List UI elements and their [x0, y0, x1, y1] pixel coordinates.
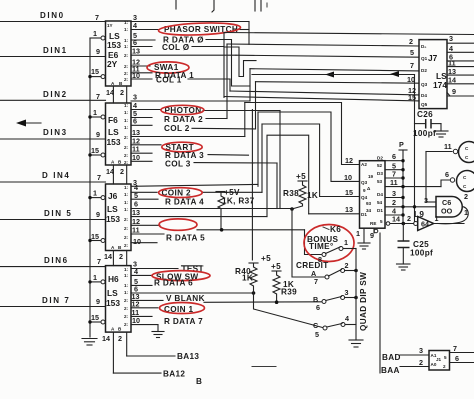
svg-text:10: 10 [132, 316, 140, 325]
annotation oval SLOW SW [152, 271, 210, 281]
wire H6 pin6 [131, 285, 252, 294]
svg-text:1:: 1: [124, 207, 129, 212]
svg-text:10: 10 [132, 71, 140, 80]
svg-text:BA12: BA12 [163, 370, 185, 379]
svg-text:2:: 2: [124, 298, 129, 303]
svg-text:1:: 1: [124, 27, 129, 32]
svg-text:COL 3: COL 3 [165, 160, 191, 169]
svg-text:7: 7 [97, 257, 101, 266]
wire 9334 pin14 to inverter [386, 214, 414, 225]
svg-text:9: 9 [363, 188, 366, 193]
wire BAD to J1 [400, 346, 429, 355]
svg-text:2: 2 [120, 167, 124, 176]
svg-text:2:: 2: [124, 306, 129, 311]
svg-text:2:: 2: [124, 64, 129, 69]
wire 9334 pin15 feed [262, 124, 320, 197]
svg-text:DIN1: DIN1 [43, 46, 68, 55]
wire feedback loop from C6 out [438, 207, 468, 224]
svg-text:DIN2: DIN2 [43, 90, 68, 99]
top edge wire stub 4 [260, 0, 262, 11]
annotation oval START [162, 142, 202, 152]
svg-text:11: 11 [444, 142, 452, 151]
svg-text:11: 11 [390, 178, 398, 187]
wire R DATA2 riser [226, 44, 228, 119]
wire J6 pin11 R DATA 5 [131, 226, 205, 243]
svg-text:BAD: BAD [382, 353, 401, 362]
wire BA13 [127, 352, 200, 361]
NAND gate C6 [424, 192, 468, 217]
svg-text:1: 1 [93, 189, 97, 198]
svg-text:Q3: Q3 [361, 180, 368, 185]
svg-text:4: 4 [345, 314, 349, 323]
svg-text:7: 7 [410, 61, 414, 70]
svg-text:TIME°: TIME° [309, 242, 334, 251]
wire J6 pin6 [131, 200, 292, 209]
wire QUAD DIP SW bus [355, 249, 357, 341]
svg-text:R DATA 2: R DATA 2 [164, 115, 203, 124]
wire COL2 riser to J7 pin10 [255, 82, 257, 129]
wire E6 pin12 SWA1 [131, 58, 179, 73]
svg-text:D2: D2 [377, 156, 383, 161]
wire J7 pin15 feed [224, 97, 419, 101]
wire E6 pin6 COL 0 [131, 38, 224, 52]
svg-text:1:: 1: [124, 192, 129, 197]
svg-text:9: 9 [370, 231, 374, 240]
svg-text:9: 9 [96, 130, 100, 139]
wire F6 pin15 strobe [88, 146, 105, 157]
wire COL1 riser to J7 pin12 [229, 79, 231, 91]
svg-text:14: 14 [392, 215, 400, 224]
wire bonus switch drop [305, 230, 322, 255]
svg-text:1:: 1: [124, 103, 129, 108]
svg-text:Q4: Q4 [361, 195, 368, 200]
wire DIN1 [0, 46, 106, 57]
wire DIN6 [0, 256, 106, 267]
svg-text:2:: 2: [124, 160, 129, 165]
wire to connector circle 6 [441, 180, 450, 187]
ground H6 pin10 [152, 332, 164, 338]
svg-text:A0: A0 [431, 362, 437, 367]
svg-text:7: 7 [97, 173, 101, 182]
wire J7 pin5 feed [236, 55, 419, 57]
svg-text:11: 11 [132, 226, 140, 235]
svg-text:34: 34 [366, 208, 372, 213]
wire vertical drop x280 [279, 111, 281, 209]
annotation oval SWA1 [147, 62, 189, 73]
wire 9334 pin3 [385, 189, 405, 199]
svg-text:C26: C26 [417, 110, 433, 119]
wire E6 pin4 PHASOR SWITCH [131, 21, 249, 34]
svg-text:100pf: 100pf [413, 129, 436, 138]
P pull-up column [399, 140, 407, 224]
connector circle lower [450, 171, 474, 192]
wire long vertical to BAA [379, 233, 381, 373]
svg-text:C: C [313, 321, 318, 330]
svg-text:1K, R37: 1K, R37 [222, 197, 255, 206]
svg-text:R39: R39 [281, 288, 297, 297]
svg-text:5: 5 [444, 355, 447, 360]
svg-text:7: 7 [96, 92, 100, 101]
svg-text:D2: D2 [421, 68, 427, 73]
switch 2 credit [311, 261, 358, 286]
svg-text:BA13: BA13 [177, 352, 199, 361]
svg-text:4: 4 [134, 267, 138, 276]
svg-text:6: 6 [392, 152, 396, 161]
svg-text:D IN4: D IN4 [42, 171, 70, 180]
wire J7 pin4 out [447, 44, 474, 53]
wire COL3 drop [276, 163, 278, 209]
switch 3 [313, 288, 358, 312]
wire J6 pin5 R DATA 4 [131, 191, 204, 206]
svg-text:2:: 2: [124, 153, 129, 158]
wire J6 pin15 strobe [88, 232, 105, 243]
svg-text:6: 6 [445, 170, 449, 179]
wire H6 pin5 R DATA 6 [131, 277, 193, 288]
svg-text:1: 1 [344, 238, 348, 247]
wire 9334 pin12 feed [245, 103, 360, 165]
svg-text:2:: 2: [124, 217, 129, 222]
svg-text:19: 19 [368, 174, 374, 179]
svg-text:D4: D4 [377, 192, 383, 197]
wire BAA to J1 [400, 358, 429, 367]
wire E6 pin3 [131, 13, 249, 22]
svg-text:LS: LS [107, 204, 118, 214]
svg-text:7: 7 [314, 277, 318, 286]
wire H6 pin12 COIN 1 [131, 300, 193, 314]
annotation oval COIN 1 [160, 303, 205, 314]
9334 pin9 stub [370, 228, 378, 240]
svg-text:1: 1 [356, 229, 360, 238]
svg-text:LS: LS [108, 127, 119, 137]
svg-text:R38: R38 [283, 189, 299, 198]
wire J7 pin9 clock [447, 87, 474, 96]
svg-text:1: 1 [464, 208, 468, 217]
svg-text:R DATA 6: R DATA 6 [154, 279, 193, 288]
svg-text:J7: J7 [428, 53, 438, 63]
annotation oval PHOTON [161, 105, 204, 114]
svg-text:1: 1 [93, 29, 97, 38]
svg-text:2Y: 2Y [107, 59, 118, 69]
resistor R37 [216, 188, 255, 232]
svg-text:+5: +5 [296, 172, 306, 181]
wire F6 pin13 riser to 9334 feed [244, 103, 246, 137]
switch 1 bonus [318, 238, 356, 264]
svg-text:5: 5 [315, 330, 319, 339]
wire J7 pin7 feed [250, 69, 419, 71]
svg-text:J1: J1 [436, 357, 442, 362]
svg-text:J6: J6 [108, 191, 118, 201]
wire H6 pin3 TEST [131, 260, 204, 274]
svg-text:1K: 1K [242, 274, 253, 283]
svg-text:H6: H6 [108, 274, 119, 284]
svg-text:1:: 1: [124, 200, 129, 205]
svg-text:4: 4 [133, 21, 137, 30]
strobe enable bus (left vertical) [89, 38, 91, 337]
J6 select pin stubs A/B [104, 251, 127, 266]
wire COIN2 riser [261, 124, 263, 192]
svg-text:7: 7 [453, 344, 457, 353]
wire J7 pin3 out [447, 34, 474, 43]
wire F6 pin1 strobe [88, 108, 105, 119]
wire J6 pin12 [131, 217, 305, 230]
wire DIN5 [0, 209, 106, 220]
svg-text:13: 13 [132, 208, 140, 217]
node bend pin3 to J7 pin2 [248, 22, 250, 45]
svg-text:DIN6: DIN6 [44, 256, 69, 265]
wire PHOTON drop to switch bus [251, 110, 253, 261]
wire J6 pin3 [131, 178, 258, 187]
svg-text:R DATA 3: R DATA 3 [165, 151, 204, 160]
svg-text:3: 3 [419, 346, 423, 355]
annotation oval (empty) [159, 219, 197, 230]
svg-text:R DATA 4: R DATA 4 [165, 197, 204, 206]
wire J6 pin10 [131, 237, 157, 246]
wire BA12 [113, 370, 185, 379]
wire DIN7 [0, 296, 106, 307]
svg-text:1:: 1: [124, 125, 129, 130]
wire J1 out 7 [450, 344, 474, 353]
svg-text:2: 2 [345, 261, 349, 270]
wire DIN3 [0, 128, 106, 139]
multiplexer E6 (LS153) [106, 20, 132, 86]
svg-text:OO: OO [441, 207, 453, 216]
svg-text:15: 15 [91, 232, 99, 241]
wire J7 pin13 out [447, 67, 474, 76]
wire J6 pin4 COIN 2 [131, 183, 262, 198]
multiplexer F6 (LS153) [106, 103, 132, 165]
svg-text:QUAD DIP SW: QUAD DIP SW [359, 272, 368, 331]
svg-text:COL 2: COL 2 [164, 124, 190, 133]
svg-text:3: 3 [392, 189, 396, 198]
svg-text:DIN 7: DIN 7 [42, 296, 70, 305]
wire J7 pin10 feed [256, 82, 420, 84]
svg-text:D3: D3 [377, 171, 383, 176]
svg-text:2:: 2: [124, 235, 129, 240]
wire 9334 pin6 [385, 152, 405, 162]
svg-text:1:: 1: [124, 283, 129, 288]
top edge wire stub 3 [254, 0, 256, 11]
wire F6 pin10 COL 3 [131, 153, 277, 169]
top edge wire stub 2 [212, 0, 214, 12]
svg-text:2:: 2: [124, 314, 129, 319]
ground C25 [397, 264, 411, 270]
wire E6 pin15 strobe [88, 67, 105, 79]
svg-text:2:: 2: [124, 145, 129, 150]
svg-text:2:: 2: [124, 53, 129, 58]
ground 9334 [358, 243, 370, 249]
svg-text:R DATA 7: R DATA 7 [164, 317, 203, 326]
svg-text:1:: 1: [124, 118, 129, 123]
svg-text:10: 10 [407, 75, 415, 84]
connector circle upper [453, 142, 474, 163]
svg-text:7: 7 [95, 13, 99, 22]
svg-text:2: 2 [120, 88, 124, 97]
wire J6 pin13 riser to 9334 pin13 feed [267, 135, 309, 216]
svg-text:153: 153 [107, 137, 121, 147]
svg-text:9: 9 [96, 47, 100, 56]
svg-text:DIN0: DIN0 [40, 11, 65, 20]
svg-text:12: 12 [345, 156, 353, 165]
svg-text:COL 1: COL 1 [156, 76, 182, 85]
wire 9334 pin5 [385, 162, 405, 172]
inverter L9 [414, 210, 439, 231]
svg-text:2: 2 [119, 252, 123, 261]
svg-text:P: P [399, 140, 404, 149]
svg-text:9: 9 [96, 297, 100, 306]
svg-text:100pf: 100pf [410, 249, 433, 258]
arrow annotation pointing left [16, 120, 41, 127]
svg-text:13: 13 [132, 47, 140, 56]
wire J1 out 6 [450, 354, 474, 363]
svg-text:D1: D1 [377, 208, 383, 213]
svg-text:2: 2 [118, 334, 122, 343]
capacitor C26 [413, 110, 441, 138]
svg-text:15: 15 [345, 188, 353, 197]
svg-text:D₀: D₀ [421, 44, 426, 49]
svg-text:6: 6 [133, 117, 137, 126]
wire F6 pin11 R DATA 3 [131, 145, 249, 160]
annotation oval COIN 2 [159, 188, 203, 198]
svg-text:Q5: Q5 [421, 102, 428, 107]
svg-text:6: 6 [455, 354, 459, 363]
svg-text:153: 153 [106, 214, 120, 224]
svg-text:K6: K6 [330, 225, 341, 234]
svg-text:1:: 1: [124, 290, 129, 295]
svg-text:10: 10 [133, 237, 141, 246]
wire J6 pin13 [131, 208, 267, 217]
resistor R38 [283, 172, 318, 211]
F6 select pin stubs A/B [106, 165, 127, 184]
svg-text:15: 15 [91, 313, 99, 322]
svg-text:5: 5 [380, 219, 383, 224]
multiplexer J6 (LS153) [106, 184, 132, 251]
svg-text:14: 14 [448, 76, 456, 85]
svg-text:2:: 2: [124, 77, 129, 82]
svg-text:DIN3: DIN3 [43, 128, 68, 137]
svg-text:2: 2 [464, 192, 468, 201]
wire COL0 riser to J7 pin15 [223, 33, 225, 98]
wire H6 pin15 strobe [88, 313, 105, 324]
svg-text:53: 53 [377, 179, 383, 184]
svg-text:1Y: 1Y [107, 23, 113, 28]
wire above J7 [224, 33, 474, 35]
svg-text:2: 2 [443, 364, 446, 369]
wire COL0 jog [224, 47, 256, 77]
svg-text:54: 54 [377, 200, 383, 205]
svg-text:1:: 1: [124, 110, 129, 115]
switch 4 [313, 314, 356, 339]
svg-text:D4: D4 [421, 93, 427, 98]
annotation oval PHASOR SWITCH [158, 22, 240, 37]
svg-text:B: B [196, 377, 202, 386]
svg-text:6: 6 [316, 303, 320, 312]
top edge wire stub 1 [175, 0, 177, 9]
wire F6 pin6 COL 2 [131, 117, 256, 134]
svg-text:LS: LS [107, 288, 118, 298]
arrowhead 2 [390, 71, 399, 77]
svg-text:Q3: Q3 [421, 82, 428, 87]
multiplexer H6 (LS153) [106, 266, 132, 333]
wire J7 pin6 out [447, 53, 474, 62]
svg-text:F6: F6 [108, 115, 118, 125]
svg-text:2: 2 [419, 358, 423, 367]
arrowhead shaft 1 [330, 74, 350, 76]
E6 select pin stubs A/B [106, 86, 127, 103]
svg-text:52: 52 [377, 163, 383, 168]
wire DIN0 [0, 11, 106, 22]
svg-text:9: 9 [452, 87, 456, 96]
wire E6 pin5 R DATA 0 [131, 31, 250, 86]
wire F6 pin5 R DATA 2 [131, 109, 227, 124]
wire H6 pin11 R DATA 7 [131, 308, 203, 326]
wire 9334 pin13 into chip [309, 213, 360, 215]
wire J6 pin3 riser to 9334 pin10 feed [257, 112, 259, 186]
svg-text:1:: 1: [124, 185, 129, 190]
svg-text:93: 93 [366, 201, 372, 206]
resistor R39 [271, 262, 297, 304]
label BONUS TIME [307, 235, 339, 251]
wire E6 pin10 COL 1 [131, 71, 230, 85]
arrowhead 1 [325, 72, 334, 78]
svg-text:10: 10 [132, 153, 140, 162]
svg-text:3: 3 [345, 288, 349, 297]
svg-text:1:: 1: [124, 267, 129, 272]
svg-text:15: 15 [91, 67, 99, 76]
wire DIN2 [0, 90, 106, 101]
wire F6 pin12 START [131, 137, 194, 153]
svg-text:1:: 1: [124, 273, 129, 278]
svg-text:1:: 1: [124, 20, 129, 25]
svg-text:64: 64 [421, 220, 429, 229]
9334 pin1 stub to ground [356, 228, 364, 243]
svg-text:5: 5 [410, 48, 414, 57]
wire R38 node to credit switch [292, 209, 325, 278]
ground (strobe bus) [82, 339, 97, 346]
stray pen dash [252, 366, 276, 368]
svg-text:+5: +5 [271, 262, 281, 271]
resistor R40 [235, 254, 271, 293]
svg-text:2:: 2: [124, 135, 129, 140]
svg-text:1: 1 [93, 108, 97, 117]
svg-text:9: 9 [96, 210, 100, 219]
wire H6 pin1 strobe [88, 273, 105, 284]
wire H6 pin13 V BLANK [131, 292, 322, 303]
wire E6 pin11 R DATA 1 [131, 65, 194, 81]
wire L9 output [434, 223, 464, 225]
svg-text:2:: 2: [124, 71, 129, 76]
svg-text:COL Ø: COL Ø [162, 43, 190, 52]
svg-text:1K: 1K [307, 191, 318, 200]
ground C26 [434, 131, 448, 137]
svg-text:1:: 1: [124, 38, 129, 43]
wire to switch C [254, 293, 323, 328]
svg-text:RE: RE [370, 221, 376, 226]
wire clock drop [414, 75, 416, 225]
wire F6 pin13 [131, 128, 245, 137]
svg-text:V BLANK: V BLANK [166, 294, 205, 303]
wire J6 pin1 strobe [88, 189, 105, 200]
wire J7 pin2 feed [227, 44, 419, 46]
node R40 junction [252, 291, 256, 295]
wire H6 pin10 to ground [131, 316, 158, 332]
svg-text:A2: A2 [361, 162, 367, 167]
annotation K6 [323, 225, 341, 234]
capacitor C25 [398, 224, 434, 265]
wire 9334 pin2 [385, 198, 436, 209]
stray mark [266, 3, 268, 7]
H6 select pin stubs A/B [102, 332, 127, 373]
svg-text:BAA: BAA [381, 366, 400, 375]
